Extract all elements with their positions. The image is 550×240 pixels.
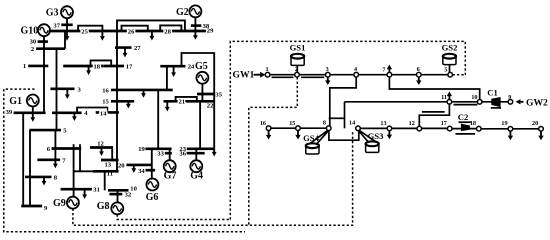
svg-text:GW1: GW1	[233, 70, 255, 81]
svg-text:G9: G9	[53, 198, 66, 209]
svg-text:GS1: GS1	[290, 43, 306, 53]
svg-text:1: 1	[265, 66, 268, 73]
svg-text:G1: G1	[9, 96, 22, 107]
load arrow at bus 20	[133, 165, 135, 169]
gas node 17	[447, 126, 452, 131]
svg-text:36: 36	[179, 151, 186, 158]
load arrow at bus 8	[43, 177, 45, 182]
svg-text:G10: G10	[21, 25, 39, 36]
svg-text:19: 19	[501, 120, 507, 127]
load arrow at bus 39	[32, 113, 34, 118]
svg-text:4: 4	[354, 66, 357, 73]
gas node 15	[296, 126, 301, 131]
gas node 10	[477, 100, 482, 105]
svg-text:17: 17	[441, 120, 447, 127]
svg-text:G3: G3	[46, 8, 59, 19]
pipeline node18-19-20	[481, 128, 539, 130]
bus 6	[52, 147, 82, 150]
svg-text:9: 9	[508, 94, 511, 101]
bus 10	[108, 189, 129, 192]
wire bus39 to bus9	[22, 113, 24, 206]
bus 37	[61, 23, 72, 26]
pipeline node1-node2 double line	[270, 74, 295, 76]
bus 25-26-28-29 continuous line	[49, 30, 206, 33]
load arrow at bus 26	[151, 31, 153, 37]
load arrow below bus 23 right end	[213, 149, 215, 153]
generator G1	[27, 95, 39, 107]
wire G5 to bus35 and bus22	[201, 84, 203, 102]
bus 35	[197, 93, 214, 96]
wire bus19-33-G7	[169, 149, 171, 161]
svg-text:37: 37	[53, 22, 60, 29]
wire bus24 staircase to long right vertical	[182, 53, 215, 149]
wire bus23-36-G4	[195, 149, 197, 161]
bus 21-22 line	[164, 100, 215, 103]
bus 16	[111, 89, 173, 92]
svg-text:16: 16	[102, 87, 109, 94]
gas node 19	[508, 127, 513, 132]
svg-text:39: 39	[6, 109, 13, 116]
svg-text:20: 20	[532, 120, 538, 127]
gas node 12	[417, 126, 422, 131]
svg-text:G8: G8	[97, 201, 110, 212]
svg-text:15: 15	[102, 99, 109, 106]
bus 24	[160, 65, 185, 68]
svg-text:38: 38	[203, 23, 210, 30]
svg-text:GS3: GS3	[368, 131, 384, 141]
svg-text:19: 19	[138, 146, 145, 153]
svg-text:11: 11	[107, 170, 113, 177]
wire jumper over label 21	[176, 97, 197, 101]
pipeline node11-node10 double line	[452, 101, 478, 103]
wire bus2-3-4-5 vertical	[56, 49, 58, 130]
svg-text:31: 31	[93, 186, 100, 193]
load arrow at bus 31	[84, 189, 86, 195]
wire G10-30-2-1-39 vertical	[43, 36, 45, 113]
wire bus16 to bus19	[157, 90, 159, 149]
load arrow at bus 29	[194, 31, 196, 36]
svg-text:34: 34	[138, 168, 145, 175]
load arrow at bus 12	[101, 148, 103, 153]
svg-text:G6: G6	[146, 192, 159, 203]
svg-text:1: 1	[23, 63, 26, 70]
load arrow at bus 25	[101, 31, 103, 37]
generator G5	[196, 72, 208, 84]
bus 19	[145, 147, 171, 150]
load arrow at gas node 6	[418, 77, 420, 81]
load arrow at bus 4	[73, 113, 75, 117]
pipeline bottom row node16-15-8	[269, 127, 327, 129]
svg-text:10: 10	[130, 185, 137, 192]
bus 12	[90, 146, 113, 149]
wire bridge bus18-bus17	[91, 60, 112, 66]
svg-text:27: 27	[134, 45, 141, 52]
load arrow at gas node 3	[327, 77, 329, 81]
load arrow at bus 21	[166, 101, 168, 107]
wire jumper over label 25	[78, 26, 102, 31]
bus 8	[25, 176, 52, 179]
load arrow at bus 27	[124, 48, 126, 54]
wire bridge bus4-bus14	[77, 108, 107, 113]
bus 18 line	[63, 65, 103, 68]
svg-text:17: 17	[126, 64, 133, 71]
gas node 1	[265, 72, 270, 77]
bus 36	[187, 152, 205, 155]
svg-text:G7: G7	[164, 171, 177, 182]
svg-text:8: 8	[323, 120, 326, 127]
gas node 20	[539, 127, 544, 132]
generator G4	[190, 160, 202, 172]
gas node 16	[266, 126, 271, 131]
generator G2	[189, 5, 201, 17]
generator G9	[67, 197, 79, 209]
load arrow at bus 3	[66, 89, 68, 95]
wire bus12 to bus13	[111, 148, 113, 161]
label GW2 and supply arrow	[520, 101, 524, 103]
svg-text:14: 14	[349, 120, 355, 127]
svg-text:10: 10	[471, 94, 477, 101]
svg-text:21: 21	[179, 99, 186, 106]
bus 1	[28, 65, 48, 68]
svg-text:28: 28	[164, 28, 171, 35]
generator G8	[111, 202, 123, 214]
wire bus22 to bus23	[199, 101, 201, 149]
pipeline node2-node3 double line	[299, 74, 325, 76]
svg-text:13: 13	[380, 120, 386, 127]
gas node 18	[477, 126, 482, 131]
bus 7	[37, 158, 60, 161]
wire G1 to bus 39	[32, 106, 34, 113]
svg-text:18: 18	[94, 64, 101, 71]
svg-text:7: 7	[382, 67, 385, 74]
wire bus5-8-9 vertical	[29, 130, 31, 206]
pipeline node4 down to node8	[330, 77, 356, 126]
wire jumper over label 28	[160, 25, 181, 31]
gas node 13	[387, 126, 392, 131]
dashed link G9 to gas node 14 bottom line	[73, 131, 353, 226]
bus 27	[115, 46, 132, 49]
bus 2	[36, 47, 65, 50]
wire bus6 to bus11 and to bus31/G9	[73, 144, 75, 196]
pipeline node3-node4-node7-node6-node5	[330, 74, 448, 76]
bus 5	[29, 129, 61, 132]
gas node 2	[295, 72, 300, 77]
svg-text:G2: G2	[176, 7, 189, 18]
gas node 3	[326, 72, 331, 77]
bus 33	[165, 152, 172, 155]
bus 11	[93, 170, 119, 173]
wire bus5-6-7 vertical and load arrow below bus 7	[54, 130, 56, 160]
svg-text:16: 16	[260, 120, 266, 127]
gas node 8	[326, 126, 331, 131]
bus 30	[38, 40, 48, 43]
dashed link gas node 2 to coupling path	[249, 77, 297, 225]
dashed link G8 to gas box	[117, 214, 230, 219]
dashed link GS2/node5 to gas box edge	[453, 74, 466, 76]
bus 34	[146, 169, 156, 172]
bus 17	[103, 65, 124, 68]
svg-text:3: 3	[326, 66, 329, 73]
gas node 6	[417, 72, 422, 77]
svg-text:12: 12	[97, 141, 104, 148]
svg-text:35: 35	[215, 91, 222, 98]
pipeline node17-18 with compressor C2	[452, 128, 477, 130]
wire bus19-20-34-G6 vertical	[151, 149, 153, 179]
wire bus26 to bus29 top line	[117, 20, 185, 31]
bus 32	[109, 193, 122, 196]
pipeline bottom row node14-13-12-17	[360, 127, 447, 129]
bus 39	[14, 111, 46, 114]
svg-text:12: 12	[409, 120, 415, 127]
svg-text:22: 22	[207, 103, 214, 110]
svg-text:30: 30	[30, 39, 37, 46]
pipeline node8 to node14 underpass	[329, 131, 359, 141]
svg-text:33: 33	[157, 151, 164, 158]
svg-text:11: 11	[441, 94, 447, 101]
pipeline node7 down/right to node10	[389, 77, 479, 100]
gas node 7 with injection arrow	[387, 72, 392, 77]
load arrow at bus 16	[143, 90, 145, 94]
bus 3	[50, 87, 74, 90]
wire bus11 to bus10	[104, 171, 106, 190]
svg-text:G5: G5	[195, 61, 208, 72]
generator G3	[61, 6, 73, 18]
svg-text:20: 20	[118, 162, 125, 169]
bus 13	[101, 159, 119, 162]
dashed boundary of natural gas system (right box)	[230, 41, 465, 219]
dashed boundary of electric power system (left box)	[4, 89, 245, 232]
pipeline node11 to node8 ladder	[345, 101, 448, 103]
generator G7	[164, 160, 176, 172]
wire bus10-32-G8	[117, 190, 119, 203]
gas node 14	[356, 126, 361, 131]
generator G10	[38, 24, 50, 36]
svg-text:24: 24	[188, 64, 195, 71]
wire G2 to bus 38/29	[194, 17, 196, 31]
svg-text:C2: C2	[458, 112, 469, 122]
bus 15	[111, 100, 134, 103]
gas node 11 with injection arrow	[447, 100, 452, 105]
long vertical bus26-27-17-16-15-14-13-11	[116, 31, 118, 171]
svg-text:18: 18	[470, 120, 476, 127]
svg-text:GS2: GS2	[442, 43, 458, 53]
bus 20	[126, 164, 152, 167]
wire G3 to bus 37	[66, 18, 68, 25]
svg-text:13: 13	[105, 161, 112, 168]
load arrow on line 18	[88, 66, 90, 71]
load arrow at bus 15	[127, 101, 129, 104]
svg-text:6: 6	[417, 66, 420, 73]
svg-text:25: 25	[81, 28, 88, 35]
bus 4	[52, 111, 82, 114]
bus 14	[96, 111, 119, 114]
gas node 9	[508, 100, 513, 105]
bus 31	[61, 188, 92, 191]
svg-text:G4: G4	[190, 171, 203, 182]
svg-text:32: 32	[125, 192, 132, 199]
svg-text:15: 15	[289, 120, 295, 127]
svg-text:GW2: GW2	[526, 97, 548, 108]
generator G6	[146, 179, 158, 191]
wire bus24 to bus16	[166, 66, 168, 90]
svg-text:26: 26	[128, 28, 135, 35]
gas node 5	[448, 72, 453, 77]
load arrow at bus 37 crossing bus line 25	[66, 25, 68, 37]
bus 38	[191, 24, 201, 27]
svg-text:C1: C1	[487, 87, 498, 97]
load arrow at bus 24	[173, 66, 175, 73]
wire jumper over label 26	[122, 26, 148, 31]
bus 9	[21, 205, 42, 208]
svg-text:5: 5	[444, 67, 447, 74]
svg-text:14: 14	[100, 110, 107, 117]
wire bus25 to bus2	[64, 31, 66, 49]
bus 23	[187, 147, 215, 150]
gas node 4	[354, 72, 359, 77]
pipeline node11 to node12 double line	[419, 104, 449, 126]
